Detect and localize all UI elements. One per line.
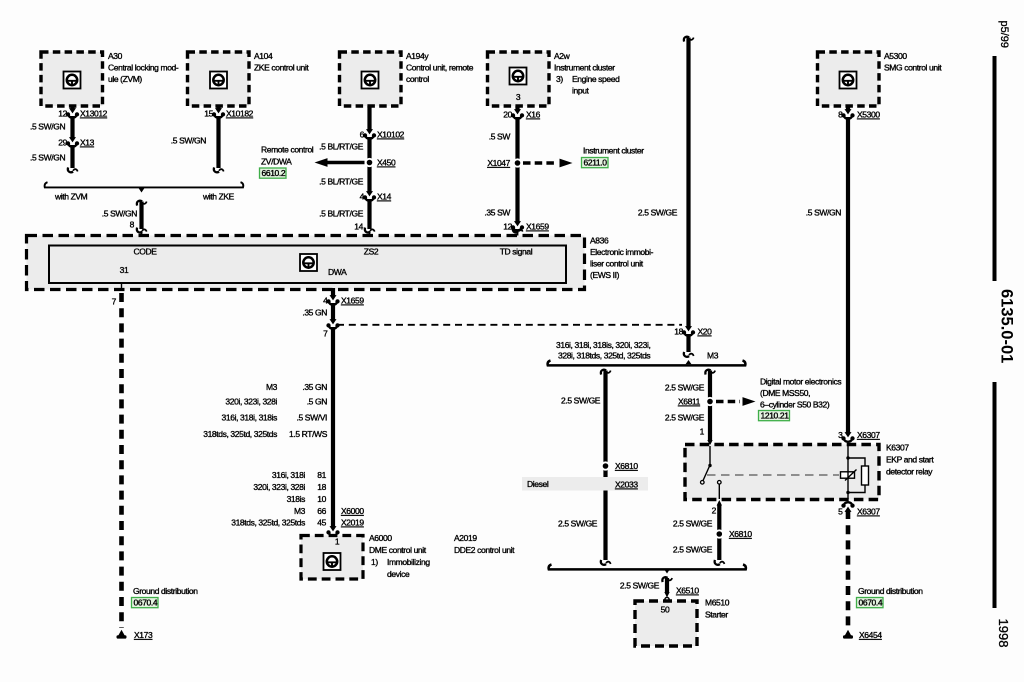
svg-text:X14: X14	[377, 192, 392, 202]
A836 roundel icon	[300, 254, 317, 271]
svg-text:X13012: X13012	[80, 109, 108, 119]
svg-text:DWA: DWA	[328, 267, 347, 277]
svg-text:K6307: K6307	[886, 443, 909, 453]
svg-text:X173: X173	[134, 630, 153, 640]
svg-text:A6000: A6000	[369, 533, 392, 543]
svg-text:control: control	[406, 74, 429, 84]
svg-text:6: 6	[360, 130, 365, 140]
wire segment	[367, 137, 371, 192]
svg-text:8: 8	[838, 110, 843, 120]
label A2w	[554, 51, 620, 96]
svg-text:.5 SW/GN: .5 SW/GN	[30, 122, 65, 132]
svg-text:Ground distribution: Ground distribution	[133, 586, 198, 596]
node X1047	[487, 158, 522, 168]
svg-text:X6510: X6510	[676, 586, 699, 596]
svg-text:Diesel: Diesel	[527, 479, 549, 489]
connector X13012	[58, 108, 107, 118]
svg-text:Control unit, remote: Control unit, remote	[406, 63, 474, 73]
svg-text:p5/99: p5/99	[998, 21, 1010, 49]
wire segment	[70, 116, 74, 138]
branch wire diesel path	[601, 370, 611, 565]
connector X13	[58, 137, 94, 147]
svg-text:4: 4	[360, 192, 365, 202]
svg-text:X6810: X6810	[729, 529, 752, 539]
wire A2w pin 20	[515, 106, 519, 110]
svg-text:SMG control unit: SMG control unit	[884, 63, 942, 73]
wire pin 2 down	[715, 500, 725, 565]
svg-text:12: 12	[58, 109, 67, 119]
svg-text:1): 1)	[371, 557, 378, 567]
ground X173	[117, 630, 153, 640]
svg-text:Remote control: Remote control	[261, 145, 314, 155]
svg-text:5: 5	[838, 507, 843, 517]
svg-text:X2033: X2033	[615, 480, 638, 490]
connector X14	[360, 191, 392, 201]
bracket line	[44, 182, 243, 193]
node X6810 on diesel wire	[601, 461, 638, 471]
svg-text:A2w: A2w	[554, 51, 571, 61]
relay winding	[846, 446, 868, 499]
svg-text:Electronic immobi-: Electronic immobi-	[590, 247, 654, 257]
svg-text:.5 SW/GN: .5 SW/GN	[30, 153, 65, 163]
svg-text:A836: A836	[590, 236, 609, 246]
link 6211.0	[582, 158, 609, 168]
starter box M6510	[635, 601, 697, 646]
svg-text:A2019: A2019	[454, 533, 477, 543]
wire A30 pin 12 to X13	[70, 106, 74, 109]
svg-text:X6810: X6810	[615, 461, 638, 471]
wire variant table upper	[203, 382, 327, 439]
svg-text:.5 SW/GN: .5 SW/GN	[806, 208, 841, 218]
wire to M3 bus	[684, 334, 694, 357]
wire A104 pin 15	[216, 106, 220, 109]
connector X1659 pin 4	[323, 295, 364, 305]
svg-text:6211.0: 6211.0	[584, 158, 608, 168]
node X450	[365, 158, 396, 168]
relay actuation dashed link	[707, 474, 839, 476]
wire A194y pin 6	[367, 106, 371, 130]
svg-text:1.5 RT/WS: 1.5 RT/WS	[289, 429, 328, 439]
svg-text:2.5 SW/GE: 2.5 SW/GE	[673, 545, 713, 555]
label A30	[108, 51, 179, 84]
svg-text:Starter: Starter	[705, 610, 728, 620]
svg-text:A194y: A194y	[406, 51, 429, 61]
svg-text:liser control unit: liser control unit	[590, 259, 644, 269]
svg-text:EKP and start: EKP and start	[886, 455, 934, 465]
frame doc number 6135.0-01	[998, 289, 1016, 363]
connector X20	[674, 326, 712, 336]
svg-text:ule (ZVM): ule (ZVM)	[108, 74, 142, 84]
wire down to DME	[331, 327, 335, 527]
wire down to relay pin 3	[846, 117, 850, 433]
link 0670.4	[132, 598, 159, 608]
svg-text:input: input	[572, 86, 590, 96]
svg-text:ZV/DWA: ZV/DWA	[261, 157, 292, 167]
pin variant table lower	[231, 470, 326, 528]
dashed ground wire from pin 5	[846, 510, 851, 628]
svg-text:.5 SW/GN: .5 SW/GN	[171, 136, 206, 146]
relay coil actuator	[841, 470, 857, 481]
svg-text:50: 50	[661, 605, 670, 615]
connector X1659 pin 12	[503, 221, 549, 231]
svg-text:detector relay: detector relay	[886, 467, 933, 477]
svg-text:81: 81	[317, 470, 326, 480]
svg-text:Central locking mod-: Central locking mod-	[108, 63, 179, 73]
module A30 box	[41, 52, 103, 106]
svg-text:6–cylinder S50 B32): 6–cylinder S50 B32)	[760, 400, 830, 410]
wire start curl	[684, 37, 694, 42]
svg-text:Digital motor electronics: Digital motor electronics	[760, 377, 841, 387]
frame border line upper	[993, 56, 997, 281]
svg-text:TD signal: TD signal	[500, 247, 533, 257]
connector X10182	[204, 108, 253, 118]
svg-text:.5 SW: .5 SW	[489, 132, 511, 142]
svg-text:316i, 318i, 318is, 320i, 323i,: 316i, 318i, 318is, 320i, 323i,	[556, 340, 650, 350]
diesel band	[522, 477, 648, 491]
svg-text:Instrument cluster: Instrument cluster	[583, 146, 644, 156]
svg-text:X5300: X5300	[857, 110, 880, 120]
branch wire	[705, 370, 715, 446]
svg-text:8: 8	[130, 220, 135, 230]
svg-text:DME control unit: DME control unit	[369, 545, 427, 555]
wire down to X20	[686, 38, 690, 328]
frame border line lower	[993, 382, 997, 608]
pin stub 31 to bottom	[121, 283, 123, 290]
svg-text:1: 1	[335, 537, 340, 547]
connector pin 7 junction	[323, 319, 340, 338]
module A2w box	[488, 52, 550, 106]
module A194y box	[340, 52, 402, 106]
connector into DME	[326, 526, 339, 536]
svg-text:316i, 318i, 318is: 316i, 318i, 318is	[222, 413, 278, 423]
svg-text:Instrument cluster: Instrument cluster	[554, 63, 615, 73]
svg-text:X2019: X2019	[341, 518, 364, 528]
connector X6510	[665, 586, 699, 602]
svg-text:12: 12	[503, 222, 512, 232]
svg-text:.5 BL/RT/GE: .5 BL/RT/GE	[319, 209, 364, 219]
svg-text:A30: A30	[108, 51, 123, 61]
svg-text:2.5 SW/GE: 2.5 SW/GE	[673, 519, 713, 529]
wire to A836	[365, 199, 375, 246]
connector X5300	[838, 109, 880, 119]
svg-text:M6510: M6510	[705, 598, 730, 608]
wire to A836	[513, 228, 523, 246]
wire segment	[331, 303, 335, 320]
svg-text:A104: A104	[254, 51, 273, 61]
label A2019	[454, 533, 515, 555]
arrow to remote control ZV/DWA	[315, 158, 365, 167]
svg-text:X1047: X1047	[487, 158, 510, 168]
wire A5300 pin 8	[846, 106, 850, 110]
label model list	[556, 340, 650, 361]
svg-text:X13: X13	[80, 138, 95, 148]
svg-text:Immobilizing: Immobilizing	[387, 557, 430, 567]
svg-text:X6811: X6811	[678, 397, 701, 407]
node X6811 with dashed arrow	[678, 397, 756, 407]
label K6307	[886, 443, 934, 477]
svg-text:DDE2 control unit: DDE2 control unit	[454, 545, 515, 555]
svg-text:328i, 318tds, 325td, 325tds: 328i, 318tds, 325td, 325tds	[558, 351, 650, 361]
svg-text:0670.4: 0670.4	[134, 598, 158, 608]
svg-text:X16: X16	[526, 110, 541, 120]
svg-text:3: 3	[516, 92, 521, 102]
svg-text:.5 BL/RT/GE: .5 BL/RT/GE	[319, 142, 364, 152]
svg-text:45: 45	[317, 518, 326, 528]
wire bracket to A836 pin 8	[137, 201, 147, 246]
wire to bracket	[68, 145, 78, 172]
svg-text:320i, 323i, 328i: 320i, 323i, 328i	[225, 397, 277, 407]
svg-text:10: 10	[317, 494, 326, 504]
label A836 side text	[590, 236, 654, 281]
A836 outer dashed box	[27, 236, 585, 290]
svg-text:6610.2: 6610.2	[262, 168, 286, 178]
svg-text:X10182: X10182	[226, 109, 254, 119]
svg-text:7: 7	[112, 297, 117, 307]
svg-text:3: 3	[838, 430, 843, 440]
frame sheet label p5/99	[998, 21, 1010, 49]
A836 inner box	[49, 246, 566, 284]
svg-text:2: 2	[712, 506, 717, 516]
svg-text:.5 SW/GN: .5 SW/GN	[102, 209, 137, 219]
svg-text:15: 15	[204, 109, 213, 119]
svg-text:.5 GN: .5 GN	[307, 397, 328, 407]
bus line M3	[548, 360, 746, 365]
dashed arrow to instrument cluster	[523, 159, 573, 168]
svg-text:66: 66	[317, 506, 326, 516]
dashed ground wire	[119, 293, 124, 628]
svg-text:1210.21: 1210.21	[761, 411, 790, 421]
pin 3 connector X6307	[838, 430, 880, 442]
svg-text:with ZVM: with ZVM	[54, 192, 88, 202]
svg-text:ZKE control unit: ZKE control unit	[254, 63, 309, 73]
A6000 DME control unit box	[301, 536, 363, 580]
svg-text:Ground distribution: Ground distribution	[858, 586, 923, 596]
svg-text:M3: M3	[707, 351, 719, 361]
label M6510 starter	[705, 598, 730, 620]
label A104	[254, 51, 309, 73]
svg-text:318tds, 325td, 325tds: 318tds, 325td, 325tds	[203, 429, 277, 439]
link 6610.2	[260, 168, 287, 178]
svg-text:7: 7	[323, 329, 328, 339]
svg-text:X1659: X1659	[341, 296, 364, 306]
svg-text:14: 14	[354, 222, 363, 232]
svg-text:320i, 323i, 328i: 320i, 323i, 328i	[253, 482, 305, 492]
svg-text:318is: 318is	[287, 494, 306, 504]
svg-text:A5300: A5300	[884, 51, 907, 61]
connector X10102	[360, 129, 405, 139]
svg-text:X1659: X1659	[526, 222, 549, 232]
svg-text:18: 18	[317, 482, 326, 492]
bus line starter	[549, 565, 746, 574]
svg-text:.35 SW: .35 SW	[484, 208, 510, 218]
svg-text:2.5 SW/GE: 2.5 SW/GE	[665, 383, 705, 393]
svg-text:2.5 SW/GE: 2.5 SW/GE	[665, 413, 705, 423]
svg-text:2.5 SW/GE: 2.5 SW/GE	[558, 519, 598, 529]
dashed branch wire to X20	[337, 324, 682, 326]
svg-text:Engine speed: Engine speed	[572, 74, 620, 84]
svg-text:M3: M3	[294, 506, 306, 516]
svg-text:ZS2: ZS2	[364, 247, 379, 257]
label A194y	[406, 51, 474, 84]
svg-text:X6454: X6454	[859, 630, 882, 640]
label A6000	[369, 533, 430, 579]
svg-text:.5 SW/VI: .5 SW/VI	[297, 413, 328, 423]
module A5300 box	[818, 52, 880, 106]
svg-text:.5 BL/RT/GE: .5 BL/RT/GE	[319, 177, 364, 187]
svg-text:X6000: X6000	[341, 506, 364, 516]
svg-text:6135.0-01: 6135.0-01	[998, 289, 1016, 363]
label digital motor electronics	[760, 377, 841, 410]
link 0670.4 right	[857, 598, 884, 608]
connector names X6000 / X2019	[341, 506, 364, 528]
svg-text:0670.4: 0670.4	[859, 598, 883, 608]
svg-text:(EWS II): (EWS II)	[590, 270, 620, 280]
svg-text:2.5 SW/GE: 2.5 SW/GE	[561, 396, 601, 406]
wire segment	[515, 117, 519, 223]
svg-text:CODE: CODE	[133, 247, 157, 257]
svg-text:20: 20	[503, 110, 512, 120]
module A104 box	[188, 52, 250, 106]
link 1210.21	[759, 411, 790, 421]
svg-text:with ZKE: with ZKE	[202, 192, 235, 202]
svg-text:X20: X20	[698, 327, 713, 337]
wire to bracket	[214, 116, 224, 172]
svg-text:18: 18	[674, 327, 683, 337]
label A5300	[884, 51, 942, 73]
relay switch contact	[701, 446, 722, 499]
svg-text:1: 1	[700, 427, 705, 437]
svg-text:1998: 1998	[996, 619, 1011, 648]
svg-text:318tds, 325td, 325tds: 318tds, 325td, 325tds	[231, 518, 305, 528]
pin stub 4 bottom	[331, 288, 335, 296]
relay box	[685, 445, 879, 500]
svg-text:M3: M3	[266, 382, 278, 392]
frame year 1998	[996, 619, 1011, 648]
svg-text:X6307: X6307	[857, 507, 880, 517]
svg-text:31: 31	[120, 265, 129, 275]
pin 5 connector X6307	[838, 502, 880, 516]
node X6810 on pin2 wire	[715, 529, 753, 539]
svg-text:X6307: X6307	[857, 430, 880, 440]
svg-text:316i, 318i: 316i, 318i	[272, 470, 306, 480]
svg-text:2.5 SW/GE: 2.5 SW/GE	[638, 208, 678, 218]
svg-text:4: 4	[323, 296, 328, 306]
svg-text:3): 3)	[556, 74, 563, 84]
label remote control ZV/DWA	[261, 145, 314, 167]
svg-text:X450: X450	[377, 158, 396, 168]
svg-text:2.5 SW/GE: 2.5 SW/GE	[620, 581, 660, 591]
svg-text:X10102: X10102	[377, 130, 405, 140]
svg-text:device: device	[387, 569, 410, 579]
wire bus to starter	[662, 577, 672, 597]
connector X16	[503, 109, 540, 119]
svg-text:.35 GN: .35 GN	[302, 382, 327, 392]
svg-text:29: 29	[58, 138, 67, 148]
svg-text:(DME MSS50,: (DME MSS50,	[760, 388, 810, 398]
ground X6454	[843, 630, 882, 640]
svg-text:.35 GN: .35 GN	[302, 308, 327, 318]
